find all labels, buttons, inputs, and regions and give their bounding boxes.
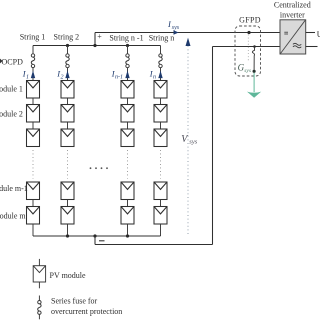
ground arrow symbol <box>247 92 261 98</box>
PV module: string1 row m <box>27 207 40 225</box>
wire <box>67 98 69 105</box>
inverter diagonal divider <box>280 20 305 53</box>
PV module: stringn-1 row3 <box>121 129 134 147</box>
wire: dotted continuation stringn-1 <box>127 150 129 179</box>
wire: AC output line 2 <box>306 46 318 48</box>
PV module: string1 row1 <box>27 81 40 99</box>
PV module: stringn-1 row2 <box>121 105 134 123</box>
node: string n-1 on positive bus <box>126 44 129 47</box>
decorative cut glyph left of OCPD <box>0 59 3 64</box>
wire: left vertical connecting feeder to string bus <box>94 33 96 46</box>
wire: AC output line 1 <box>306 32 315 34</box>
svg-text:+: + <box>97 32 102 41</box>
wire: dotted sense link inside GFPD <box>247 35 249 63</box>
GFPD dashed enclosure <box>235 26 261 76</box>
svg-text:String n -1: String n -1 <box>109 33 143 42</box>
wire: string2 bottom <box>67 224 69 236</box>
PV module: stringn row m-1 <box>154 182 167 200</box>
svg-text:Centralized: Centralized <box>274 1 311 10</box>
wire <box>127 200 129 207</box>
svg-text:GFPD: GFPD <box>239 16 261 25</box>
wire: string 1 below fuse <box>32 67 34 80</box>
svg-text:n-1: n-1 <box>115 75 123 81</box>
V_sys measurement dotted line <box>187 46 189 237</box>
wire <box>32 122 34 129</box>
PV module: string2 row m-1 <box>61 182 74 200</box>
wire: stringn bottom <box>160 224 162 236</box>
svg-text:String 2: String 2 <box>54 32 80 41</box>
svg-text:Module 1: Module 1 <box>0 85 23 94</box>
PV module: string2 row1 <box>61 81 74 99</box>
legend fuse symbol <box>38 296 41 320</box>
arrow: current I2 <box>65 71 69 79</box>
svg-text:n: n <box>153 75 156 81</box>
fuse: GFPD ground fault fuse <box>252 47 254 71</box>
inverter box U1 <box>280 20 306 54</box>
svg-text:sys: sys <box>244 68 251 74</box>
wire: string n top <box>160 46 162 55</box>
node: GFPD tap on positive feeder <box>247 31 250 34</box>
PV module: stringn-1 row1 <box>121 81 134 99</box>
svg-text:Module m: Module m <box>0 212 26 221</box>
wire: string1 bottom <box>32 224 34 236</box>
wire: ground lead (green) <box>253 73 255 92</box>
PV module: stringn row3 <box>154 129 167 147</box>
wire: string 2 top <box>67 46 69 55</box>
wire <box>160 98 162 105</box>
svg-text:String n: String n <box>149 33 175 42</box>
wire: string 2 below fuse <box>67 67 69 80</box>
node: string 2 on positive bus <box>66 44 69 47</box>
PV module: stringn-1 row m <box>121 207 134 225</box>
node: string n-1 on negative bus <box>126 234 129 237</box>
node: G_sys measurement point <box>253 70 256 73</box>
wire: dotted continuation stringn <box>160 150 162 179</box>
svg-text:Series fuse for: Series fuse for <box>51 296 98 305</box>
svg-text:sys: sys <box>189 139 197 146</box>
PV module: string1 row2 <box>27 105 40 123</box>
wire: negative string bus <box>33 235 161 237</box>
svg-text:inverter: inverter <box>280 11 305 20</box>
wire: positive string bus <box>33 45 161 47</box>
wire: string n-1 top <box>127 46 129 55</box>
svg-text:Module m-1: Module m-1 <box>0 184 28 193</box>
wire: string n below fuse <box>160 67 162 80</box>
svg-text:Module 2: Module 2 <box>0 110 23 119</box>
svg-text:overcurrent protection: overcurrent protection <box>51 307 122 316</box>
arrow: I_sys direction on feeder <box>174 30 179 34</box>
svg-text:OCPD: OCPD <box>2 58 24 67</box>
fuse: string 1 OCPD <box>31 54 34 68</box>
svg-text:String 1: String 1 <box>20 32 46 41</box>
wire <box>67 200 69 207</box>
arrow: V_sys direction <box>186 38 191 46</box>
wire: stringn-1 bottom <box>127 224 129 236</box>
fuse: string n OCPD <box>159 54 162 68</box>
PV module: string1 row3 <box>27 129 40 147</box>
svg-text:sys: sys <box>172 25 180 31</box>
arrow: current In-1 <box>125 71 129 79</box>
inverter AC symbol <box>293 43 301 48</box>
wire: negative return line <box>95 244 213 246</box>
svg-text:PV module: PV module <box>50 271 87 280</box>
ellipsis between string 2 and string n-1 <box>90 167 108 169</box>
wire <box>32 200 34 207</box>
PV module: string1 row m-1 <box>27 182 40 200</box>
wire: dotted continuation string1 <box>32 150 34 179</box>
label: minus sign of negative bus <box>99 240 105 242</box>
node: feeder tap on positive bus <box>93 44 96 47</box>
wire: string 1 top <box>32 46 34 55</box>
wire <box>160 200 162 207</box>
wire <box>67 122 69 129</box>
wire <box>32 98 34 105</box>
arrow: current I1 <box>31 71 35 79</box>
PV module: stringn row2 <box>154 105 167 123</box>
wire: negative bus step down <box>94 236 96 245</box>
PV module: string2 row2 <box>61 105 74 123</box>
node: string 2 on negative bus <box>66 234 69 237</box>
fuse: string 2 OCPD <box>66 54 69 68</box>
PV module: string2 row3 <box>61 129 74 147</box>
PV module: stringn-1 row m-1 <box>121 182 134 200</box>
inverter DC symbol = <box>284 32 288 34</box>
PV module: stringn row m <box>154 207 167 225</box>
arrow: current In <box>158 71 162 79</box>
PV module: string2 row m <box>61 207 74 225</box>
legend PV module symbol <box>33 259 45 288</box>
wire: negative feeder to inverter <box>213 46 281 48</box>
svg-text:2: 2 <box>61 75 64 81</box>
fuse: string n-1 OCPD <box>126 54 129 68</box>
wire: right vertical return riser <box>212 47 214 245</box>
node: return tap on negative bus <box>93 234 96 237</box>
node: GFPD tap on negative feeder <box>253 45 256 48</box>
wire: positive feeder line top <box>95 32 280 34</box>
wire <box>160 122 162 129</box>
svg-text:1: 1 <box>26 75 29 81</box>
PV module: stringn row1 <box>154 81 167 99</box>
wire <box>127 122 129 129</box>
wire <box>127 98 129 105</box>
wire: string n-1 below fuse <box>127 67 129 80</box>
wire: dotted continuation string2 <box>67 150 69 179</box>
